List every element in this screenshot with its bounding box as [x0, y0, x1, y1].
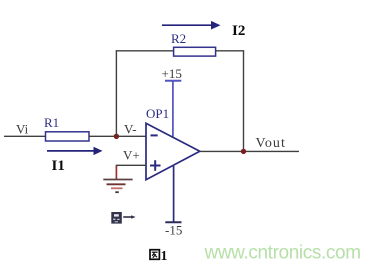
power +15	[162, 66, 182, 136]
current arrow I2	[162, 21, 221, 30]
current arrow I1	[47, 147, 103, 155]
ground	[103, 166, 132, 192]
resistor R2	[174, 47, 216, 56]
svg-text:1: 1	[161, 248, 168, 263]
svg-text:Vi: Vi	[16, 122, 29, 137]
svg-text:I1: I1	[52, 158, 65, 174]
svg-text:R1: R1	[44, 115, 59, 130]
svg-text:R2: R2	[171, 31, 186, 46]
power -15	[165, 166, 182, 237]
wire feedback top left	[116, 50, 174, 52]
svg-text:+15: +15	[162, 66, 182, 81]
wire output	[200, 150, 299, 152]
svg-text:Vout: Vout	[256, 136, 286, 151]
svg-text:-15: -15	[165, 222, 182, 237]
wire R1 to inverting input	[89, 135, 146, 137]
caption 图1	[150, 248, 168, 263]
op-amp OP1	[146, 123, 200, 179]
junction node at V-	[114, 134, 119, 139]
op-amp inverting input marker	[151, 134, 158, 136]
svg-text:V-: V-	[124, 122, 137, 137]
wire input left segment	[4, 135, 46, 137]
op-amp non-inverting input marker	[150, 160, 161, 171]
svg-text:OP1: OP1	[146, 106, 169, 121]
wire output vertical right	[243, 51, 245, 152]
svg-text:I2: I2	[232, 23, 245, 39]
wire non-inverting input to ground corner	[116, 165, 146, 167]
wire feedback vertical left	[115, 51, 117, 137]
svg-text:V+: V+	[123, 147, 140, 162]
junction node at output	[241, 149, 246, 154]
svg-text:www.cntronics.com: www.cntronics.com	[204, 243, 361, 264]
resistor R1	[46, 132, 90, 141]
label 图一 figure marker	[111, 212, 135, 224]
wire R2 to right corner	[216, 50, 245, 52]
